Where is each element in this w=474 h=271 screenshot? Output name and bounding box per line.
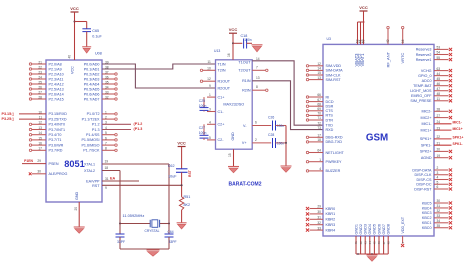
svg-text:18: 18	[105, 166, 109, 170]
svg-text:KBC0: KBC0	[422, 226, 432, 230]
svg-text:P3.4/INT0: P3.4/INT0	[49, 123, 66, 127]
svg-text:P1EN: P1EN	[24, 159, 33, 163]
svg-text:U3: U3	[327, 37, 331, 41]
svg-text:VRTC: VRTC	[400, 53, 405, 64]
svg-text:R2OUT: R2OUT	[218, 86, 231, 90]
svg-text:T2OUT: T2OUT	[238, 69, 251, 73]
svg-text:MIC1+: MIC1+	[453, 127, 463, 131]
svg-text:23: 23	[38, 70, 42, 74]
svg-text:R1OUT: R1OUT	[218, 80, 231, 84]
svg-text:KBC2: KBC2	[422, 216, 432, 220]
svg-text:33PF: 33PF	[169, 240, 177, 244]
svg-text:C28: C28	[268, 133, 274, 137]
svg-text:22: 22	[38, 65, 42, 69]
svg-text:R2IN: R2IN	[242, 89, 251, 93]
svg-text:C25: C25	[199, 99, 205, 103]
svg-text:P2.0/A8: P2.0/A8	[49, 62, 62, 66]
svg-text:GND5: GND5	[373, 224, 377, 235]
svg-text:P2.2/A10: P2.2/A10	[49, 72, 64, 76]
svg-text:P2.5/A13: P2.5/A13	[49, 87, 64, 91]
svg-text:P3.7/T1: P3.7/T1	[49, 138, 62, 142]
svg-text:U13: U13	[214, 49, 220, 53]
svg-text:SPK1-: SPK1-	[421, 144, 432, 148]
svg-text:VCC: VCC	[177, 140, 186, 145]
svg-text:P2.4/A12: P2.4/A12	[49, 82, 64, 86]
svg-text:4: 4	[209, 120, 211, 124]
svg-text:SIM-CLK: SIM-CLK	[326, 73, 341, 77]
svg-text:RST: RST	[92, 184, 100, 188]
svg-text:P1.5/MOSI: P1.5/MOSI	[81, 138, 99, 142]
svg-text:P0.5/AD5: P0.5/AD5	[84, 87, 100, 91]
svg-text:ALE/PROG: ALE/PROG	[49, 172, 68, 176]
svg-text:P1.1/T2EX: P1.1/T2EX	[82, 117, 100, 121]
svg-text:P1.6/MISO: P1.6/MISO	[81, 143, 99, 147]
svg-text:SPK1+: SPK1+	[453, 136, 464, 140]
svg-text:73: 73	[317, 126, 321, 130]
svg-text:43: 43	[363, 241, 367, 245]
svg-text:33PF: 33PF	[117, 240, 125, 244]
svg-text:44: 44	[368, 241, 372, 245]
svg-text:DISP-RST: DISP-RST	[414, 187, 432, 191]
svg-text:1: 1	[209, 93, 211, 97]
svg-text:P1.0/T2: P1.0/T2	[87, 112, 100, 116]
svg-text:SIM-RST: SIM-RST	[326, 78, 342, 82]
svg-text:6: 6	[255, 121, 257, 125]
svg-text:VCC: VCC	[359, 5, 368, 10]
svg-text:28: 28	[38, 95, 42, 99]
svg-text:P3.4/T0: P3.4/T0	[49, 133, 62, 137]
svg-text:SIM-VDD: SIM-VDD	[326, 64, 342, 68]
svg-text:P1.3: P1.3	[92, 128, 100, 132]
svg-text:VCC: VCC	[229, 27, 238, 32]
svg-text:GND4: GND4	[368, 224, 372, 235]
svg-text:50: 50	[362, 39, 366, 43]
svg-text:DSR: DSR	[326, 105, 334, 109]
svg-text:VCC: VCC	[70, 6, 79, 11]
svg-text:RI: RI	[326, 95, 330, 99]
svg-text:DISP-DATA: DISP-DATA	[412, 168, 432, 172]
svg-text:47: 47	[382, 241, 386, 245]
svg-text:DBG-TXD: DBG-TXD	[326, 140, 343, 144]
svg-text:GND: GND	[75, 191, 79, 200]
svg-text:DISP-CS: DISP-CS	[417, 178, 432, 182]
svg-text:RXD: RXD	[326, 128, 334, 132]
svg-text:P3.15/RXD: P3.15/RXD	[49, 112, 68, 116]
svg-text:20: 20	[74, 207, 78, 211]
svg-text:27: 27	[38, 90, 42, 94]
svg-text:46: 46	[377, 241, 381, 245]
svg-text:V+: V+	[242, 141, 247, 145]
svg-text:100n: 100n	[244, 38, 252, 42]
svg-text:KBC5: KBC5	[422, 201, 432, 205]
svg-text:MIC2+: MIC2+	[421, 116, 432, 120]
svg-text:100n: 100n	[277, 124, 284, 128]
svg-text:DISP-CLK: DISP-CLK	[414, 173, 432, 177]
svg-text:P0.1/AD1: P0.1/AD1	[84, 67, 100, 71]
svg-text:KBC4: KBC4	[422, 206, 432, 210]
svg-text:GND7: GND7	[382, 224, 386, 235]
svg-text:MIC1-: MIC1-	[421, 122, 432, 126]
svg-text:XTAL1: XTAL1	[84, 163, 95, 167]
svg-text:24: 24	[38, 75, 42, 79]
svg-text:5: 5	[209, 136, 211, 140]
svg-text:Reserve3: Reserve3	[416, 48, 432, 52]
svg-text:11.0592MHz: 11.0592MHz	[123, 213, 145, 218]
svg-text:100n: 100n	[277, 141, 284, 145]
svg-text:KBR4: KBR4	[326, 228, 336, 232]
svg-text:GSM: GSM	[366, 132, 388, 143]
svg-text:31: 31	[105, 177, 109, 181]
svg-text:MIC2-: MIC2-	[421, 110, 432, 114]
svg-text:U08: U08	[95, 52, 102, 56]
svg-text:13: 13	[256, 76, 260, 80]
svg-text:GND6: GND6	[377, 224, 381, 235]
svg-text:GPIO_0: GPIO_0	[418, 74, 431, 78]
svg-text:P3.7/INT1: P3.7/INT1	[49, 128, 66, 132]
svg-text:R51: R51	[184, 195, 191, 199]
svg-text:8: 8	[256, 85, 258, 89]
svg-text:C64: C64	[168, 230, 174, 234]
svg-text:C27: C27	[199, 126, 205, 130]
svg-text:15: 15	[228, 153, 232, 157]
svg-text:9: 9	[105, 186, 107, 190]
svg-text:12: 12	[207, 77, 211, 81]
svg-text:19: 19	[105, 160, 109, 164]
svg-text:SPK2+: SPK2+	[420, 150, 432, 154]
svg-text:P0.7/AD7: P0.7/AD7	[84, 97, 100, 101]
svg-text:P3.25/TXD: P3.25/TXD	[49, 117, 67, 121]
svg-text:P3.25: P3.25	[2, 117, 12, 121]
svg-text:BARAT-COM2: BARAT-COM2	[229, 182, 262, 188]
svg-text:C1-: C1-	[218, 110, 225, 114]
svg-text:DTR: DTR	[326, 118, 334, 122]
svg-text:21: 21	[38, 60, 42, 64]
svg-text:SPK1+: SPK1+	[420, 137, 432, 141]
svg-text:GND3: GND3	[364, 224, 368, 235]
svg-text:8K2: 8K2	[184, 203, 191, 207]
svg-text:100n: 100n	[199, 104, 207, 108]
svg-text:P3.7/RD: P3.7/RD	[49, 149, 63, 153]
svg-text:26: 26	[38, 85, 42, 89]
svg-text:P0.6/AD6: P0.6/AD6	[84, 92, 100, 96]
svg-text:7: 7	[256, 65, 258, 69]
svg-text:MAX232/SO: MAX232/SO	[223, 103, 244, 107]
svg-text:VCC: VCC	[71, 66, 75, 74]
svg-text:16: 16	[227, 53, 231, 57]
svg-text:T2IN: T2IN	[218, 69, 226, 73]
svg-text:T1OUT: T1OUT	[238, 60, 251, 64]
svg-text:TXD: TXD	[326, 124, 334, 128]
svg-text:T1IN: T1IN	[218, 62, 226, 66]
svg-text:GND2: GND2	[359, 224, 363, 235]
svg-text:PWRKEY: PWRKEY	[326, 160, 343, 164]
svg-text:KBR2: KBR2	[326, 218, 336, 222]
svg-text:P0.3/AD3: P0.3/AD3	[84, 77, 100, 81]
svg-text:SPK1-: SPK1-	[453, 142, 463, 146]
svg-text:PSEN: PSEN	[49, 162, 59, 166]
svg-text:MIC1-: MIC1-	[453, 121, 462, 125]
svg-text:EA/VPP: EA/VPP	[86, 179, 100, 183]
svg-text:45: 45	[373, 241, 377, 245]
svg-text:C62: C62	[168, 164, 175, 168]
svg-text:NETLIGHT: NETLIGHT	[326, 151, 345, 155]
svg-text:P1.2: P1.2	[92, 123, 100, 127]
svg-text:GND: GND	[231, 132, 235, 141]
svg-text:30: 30	[37, 169, 41, 173]
svg-text:8051: 8051	[64, 159, 84, 169]
svg-text:100n: 100n	[199, 131, 207, 135]
svg-text:P3.15: P3.15	[2, 112, 12, 116]
svg-text:10uF: 10uF	[168, 174, 177, 178]
svg-text:KBR1: KBR1	[326, 212, 336, 216]
svg-text:2: 2	[255, 138, 257, 142]
svg-text:P0.0/AD0: P0.0/AD0	[84, 62, 100, 66]
svg-text:(P1.2: (P1.2	[134, 122, 143, 126]
svg-text:ADC0: ADC0	[422, 79, 432, 83]
svg-text:9: 9	[209, 84, 211, 88]
svg-text:KBC1: KBC1	[422, 221, 432, 225]
svg-text:LIGHT_MOS: LIGHT_MOS	[410, 89, 432, 93]
svg-text:C26: C26	[268, 116, 274, 120]
svg-text:KBC3: KBC3	[422, 211, 432, 215]
svg-text:KBR0: KBR0	[326, 207, 336, 211]
svg-text:16: 16	[401, 39, 405, 43]
svg-text:C2-: C2-	[218, 138, 225, 142]
svg-text:10: 10	[207, 66, 211, 70]
svg-text:AGND: AGND	[421, 156, 432, 160]
svg-text:DISP-DC: DISP-DC	[416, 183, 431, 187]
svg-text:29: 29	[37, 159, 41, 163]
svg-text:GND8: GND8	[387, 224, 391, 235]
svg-text:C1+: C1+	[218, 95, 225, 99]
svg-text:DCD: DCD	[326, 100, 334, 104]
svg-text:DBG-RXD: DBG-RXD	[326, 136, 343, 140]
svg-text:P3.6/WR: P3.6/WR	[49, 143, 64, 147]
svg-text:40: 40	[386, 39, 390, 43]
svg-text:P1.7/SCK: P1.7/SCK	[83, 149, 100, 153]
svg-text:GND1: GND1	[354, 224, 358, 235]
svg-text:SIM_PRESE: SIM_PRESE	[410, 99, 432, 103]
svg-text:72: 72	[317, 121, 321, 125]
svg-text:RST: RST	[188, 169, 192, 177]
svg-text:P1.4/SS: P1.4/SS	[86, 133, 100, 137]
svg-text:C2+: C2+	[218, 123, 225, 127]
svg-text:EMRG_OFF: EMRG_OFF	[411, 94, 432, 98]
svg-text:VBAT1: VBAT1	[360, 53, 365, 67]
svg-text:CRYSTAL: CRYSTAL	[145, 229, 160, 233]
svg-text:KBR3: KBR3	[326, 223, 336, 227]
svg-text:11: 11	[207, 60, 211, 64]
svg-text:Reserve2: Reserve2	[416, 53, 432, 57]
svg-text:25: 25	[38, 80, 42, 84]
svg-text:VCHG: VCHG	[421, 69, 432, 73]
svg-text:BUZZER: BUZZER	[326, 169, 341, 173]
svg-text:3: 3	[209, 108, 211, 112]
svg-text:0.1uF: 0.1uF	[92, 35, 102, 39]
svg-text:P2.1/A9: P2.1/A9	[49, 67, 62, 71]
svg-text:CTS: CTS	[326, 109, 334, 113]
svg-text:48: 48	[386, 241, 390, 245]
svg-text:40: 40	[68, 55, 72, 59]
svg-text:RTS: RTS	[326, 114, 334, 118]
svg-text:P2.3/A11: P2.3/A11	[49, 77, 64, 81]
svg-text:EA: EA	[110, 176, 115, 180]
svg-text:P0.4/AD4: P0.4/AD4	[84, 82, 100, 86]
svg-text:42: 42	[359, 241, 363, 245]
svg-text:P0.2/AD2: P0.2/AD2	[84, 72, 100, 76]
svg-text:C65: C65	[92, 29, 99, 33]
svg-text:R1IN: R1IN	[242, 79, 251, 83]
svg-text:P2.7/A15: P2.7/A15	[49, 97, 64, 101]
svg-text:(P1.3: (P1.3	[134, 127, 143, 131]
svg-text:RF_ANT: RF_ANT	[385, 51, 390, 67]
svg-text:41: 41	[354, 241, 358, 245]
svg-text:Reserve1: Reserve1	[416, 58, 432, 62]
svg-text:VDD_EXT: VDD_EXT	[401, 216, 405, 233]
svg-text:TEMP-BAT: TEMP-BAT	[413, 84, 432, 88]
svg-text:MIC1+: MIC1+	[421, 128, 432, 132]
svg-text:XTAL2: XTAL2	[84, 169, 95, 173]
svg-text:SIM-DATA: SIM-DATA	[326, 69, 344, 73]
svg-text:P2.6/A14: P2.6/A14	[49, 92, 64, 96]
